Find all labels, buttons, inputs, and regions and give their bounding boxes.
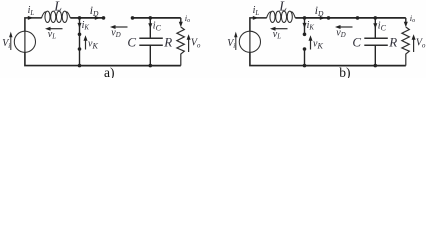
svg-text:vD: vD: [111, 27, 120, 39]
svg-text:Vi: Vi: [227, 38, 235, 50]
open diode: gap between terminals (circuit a): [0, 0, 1, 1]
wire: diode cathode to capacitor node (circuit a): [133, 17, 151, 19]
wire: conducting diode between terminals (circuit b): [329, 17, 358, 19]
wire: closed switch K between terminals (circuit a): [79, 34, 81, 49]
node: diode right terminal (circuit a): [131, 16, 135, 20]
svg-text:vL: vL: [48, 29, 56, 41]
svg-text:vD: vD: [336, 27, 345, 39]
voltage arrow v_L under inductor (circuit a): [45, 27, 63, 31]
current arrow i_C on capacitor branch (circuit b): [373, 23, 377, 29]
svg-text:vK: vK: [88, 39, 98, 51]
source reference arrow for V_i (circuit a): [9, 32, 12, 50]
node: switch top junction (circuit b): [303, 16, 307, 20]
resistor R zigzag (circuit a): [177, 27, 184, 66]
wire: top-left corner from source to inductor (circuit b): [250, 18, 267, 31]
inductor L coil (circuit a): [42, 11, 71, 22]
voltage arrow v_L under inductor (circuit b): [270, 27, 288, 31]
wire: diode cathode to capacitor node (circuit b): [358, 17, 376, 19]
node: capacitor bottom junction (circuit a): [149, 64, 153, 68]
svg-text:iK: iK: [82, 20, 90, 32]
wire: source bottom to bottom-left corner to switch (circuit b): [250, 52, 305, 65]
svg-text:iC: iC: [378, 21, 387, 33]
node: capacitor top junction (circuit b): [374, 16, 378, 20]
wire: top-left corner from source to inductor (circuit a): [25, 18, 42, 31]
svg-text:iL: iL: [28, 5, 35, 17]
svg-text:Vi: Vi: [2, 38, 10, 50]
current arrow i_o into load at top-right (circuit b): [404, 18, 408, 27]
node: switch upper terminal (circuit b): [303, 33, 307, 37]
node: switch lower terminal (circuit b): [303, 47, 307, 51]
svg-text:Vo: Vo: [416, 38, 426, 50]
wire: bottom run capacitor to bottom-right corner (circuit a): [150, 65, 181, 67]
wire: bottom run switch to capacitor (circuit a): [80, 65, 151, 67]
wire: switch node to diode anode with current arrow i_D (circuit a): [80, 16, 104, 20]
switch branch upper segment with current arrow i_K (circuit b): [303, 18, 307, 34]
svg-text:R: R: [388, 35, 397, 50]
svg-text:iD: iD: [90, 5, 99, 18]
source V_i circle (circuit a): [14, 31, 35, 52]
switch branch upper segment with current arrow i_K (circuit a): [78, 18, 82, 34]
node: switch top junction (circuit a): [78, 16, 82, 20]
svg-text:vK: vK: [313, 39, 323, 51]
node: diode right terminal (circuit b): [356, 16, 360, 20]
voltage arrow V_o across load (circuit b): [412, 34, 416, 52]
current arrow i_L on top wire (circuit b): [253, 16, 259, 20]
svg-text:io: io: [185, 13, 190, 24]
wire: inductor to switch node (circuit a): [70, 17, 79, 19]
svg-text:R: R: [163, 35, 172, 50]
capacitor C (circuit a): [139, 18, 163, 66]
node: capacitor top junction (circuit a): [149, 16, 153, 20]
resistor R zigzag (circuit b): [402, 27, 409, 66]
voltage arrow v_D across diode (circuit b): [335, 25, 353, 29]
node: switch bottom junction (circuit b): [303, 64, 307, 68]
node: switch lower terminal (circuit a): [78, 47, 82, 51]
wire: capacitor node to top-right corner (circuit b): [375, 17, 406, 19]
current arrow i_L on top wire (circuit a): [28, 16, 34, 20]
wire: source bottom to bottom-left corner to switch (circuit a): [25, 52, 80, 65]
wire: bottom run switch to capacitor (circuit b): [305, 65, 376, 67]
svg-text:L: L: [53, 0, 62, 15]
node: switch bottom junction (circuit a): [78, 64, 82, 68]
voltage arrow v_D across diode (circuit a): [110, 25, 128, 29]
open switch K: gap between terminals (circuit b): [0, 0, 1, 1]
inductor L coil (circuit b): [267, 11, 296, 22]
wire: bottom run capacitor to bottom-right corner (circuit b): [375, 65, 406, 67]
svg-text:b): b): [339, 65, 350, 78]
svg-text:vL: vL: [273, 29, 281, 41]
node: diode left terminal (circuit b): [327, 16, 331, 20]
svg-text:iD: iD: [315, 5, 324, 18]
wire: switch lower terminal to bottom junction (circuit b): [304, 49, 306, 66]
voltage arrow V_o across load (circuit a): [187, 34, 191, 52]
wire: inductor to switch node (circuit b): [295, 17, 304, 19]
svg-text:iC: iC: [153, 21, 162, 33]
svg-text:iL: iL: [253, 5, 260, 17]
voltage arrow v_K across switch (circuit a): [84, 35, 88, 49]
node: switch upper terminal (circuit a): [78, 33, 82, 37]
node: capacitor bottom junction (circuit b): [374, 64, 378, 68]
source V_i circle (circuit b): [239, 31, 260, 52]
voltage arrow v_K across switch (circuit b): [309, 35, 313, 49]
node: diode left terminal (circuit a): [102, 16, 106, 20]
capacitor C (circuit b): [364, 18, 388, 66]
svg-text:iK: iK: [307, 20, 315, 32]
svg-text:Vo: Vo: [191, 38, 201, 50]
wire: switch lower terminal to bottom junction (circuit a): [79, 49, 81, 66]
svg-text:L: L: [278, 0, 287, 15]
current arrow i_C on capacitor branch (circuit a): [148, 23, 152, 29]
source reference arrow for V_i (circuit b): [234, 32, 237, 50]
svg-text:io: io: [410, 13, 415, 24]
svg-text:C: C: [352, 34, 361, 49]
wire: capacitor node to top-right corner (circuit a): [150, 17, 181, 19]
svg-text:C: C: [127, 34, 136, 49]
wire: switch node to diode anode with current arrow i_D (circuit b): [305, 16, 329, 20]
current arrow i_o into load at top-right (circuit a): [179, 18, 183, 27]
svg-text:a): a): [104, 65, 115, 78]
